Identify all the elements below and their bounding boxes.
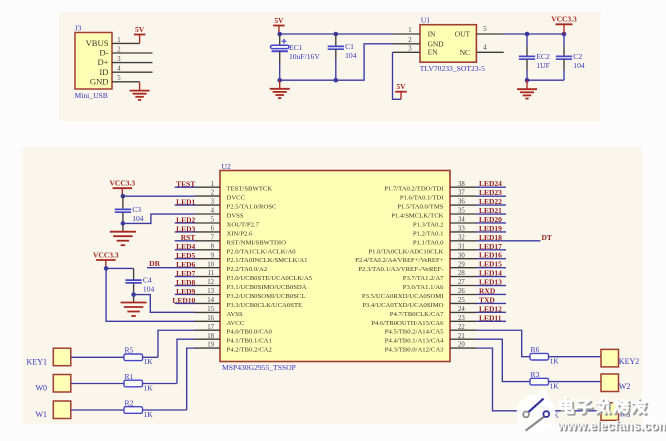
pin 23 (P4.6/TB0OUTH/A15/CA6) of U2 <box>371 315 476 327</box>
pin 3 (D+) of J3 <box>97 56 152 67</box>
wire VCC3.3 to DVCC <box>123 195 195 197</box>
svg-text:104: 104 <box>345 51 357 60</box>
svg-text:TEST: TEST <box>176 180 195 189</box>
svg-text:1: 1 <box>117 37 120 44</box>
svg-text:P1.4/SMCLK/TCK: P1.4/SMCLK/TCK <box>391 213 443 220</box>
svg-text:VCC3.3: VCC3.3 <box>109 179 135 188</box>
svg-text:5: 5 <box>483 26 487 33</box>
svg-text:P2.3/TA0.1/A3/VREF-/VeREF-: P2.3/TA0.1/A3/VREF-/VeREF- <box>358 266 443 273</box>
ground (C3) <box>110 232 136 246</box>
wire <box>526 70 528 80</box>
wire P4.1 to R1 <box>177 339 195 383</box>
svg-text:2: 2 <box>211 190 215 197</box>
svg-text:37: 37 <box>458 190 465 197</box>
svg-text:P3.5/UCA0RXD/UCA0SOMI: P3.5/UCA0RXD/UCA0SOMI <box>362 293 444 300</box>
power port 5V (input rail) <box>273 16 285 34</box>
watermark url www.elecfans.com <box>556 419 666 434</box>
svg-text:10: 10 <box>207 261 214 268</box>
wire LED24 <box>477 186 507 188</box>
connector J3 (Mini_USB) <box>75 24 113 101</box>
svg-text:P1.5/TA0.0/TMS: P1.5/TA0.0/TMS <box>397 204 444 211</box>
wire LED23 <box>477 195 507 197</box>
svg-text:KEY2: KEY2 <box>619 357 639 366</box>
capacitor EC1 <box>271 39 321 61</box>
wire <box>526 47 528 57</box>
svg-text:C2: C2 <box>573 52 582 61</box>
svg-text:LED23: LED23 <box>479 188 502 197</box>
svg-text:D+: D+ <box>97 57 108 67</box>
svg-text:XOUT/P2.7: XOUT/P2.7 <box>227 222 260 229</box>
wire output ground rail <box>527 79 564 81</box>
port W3 <box>601 403 619 421</box>
svg-text:VBUS: VBUS <box>86 38 109 48</box>
svg-text:1UF: 1UF <box>536 61 550 70</box>
svg-text:LED24: LED24 <box>479 179 502 188</box>
svg-text:OUT: OUT <box>455 29 471 38</box>
wire R4 to W3 <box>549 410 602 412</box>
wire LED7 <box>175 276 196 278</box>
pin 15 (AVSS) of U2 <box>195 306 244 318</box>
junction at C1 top <box>334 32 339 37</box>
svg-text:LED18: LED18 <box>479 233 502 242</box>
power port 5V (USB) <box>134 25 146 44</box>
pin 30 (P2.4/TA0.2/A4/VREF+/VeREF+) of U2 <box>355 252 476 264</box>
wire LED12 <box>477 311 507 313</box>
svg-text:P1.3/TA0.2: P1.3/TA0.2 <box>413 222 444 229</box>
svg-text:21: 21 <box>458 333 465 340</box>
svg-text:22: 22 <box>458 324 465 331</box>
svg-text:P4.4/TB0.1/A13/CA4: P4.4/TB0.1/A13/CA4 <box>385 338 444 345</box>
svg-text:33: 33 <box>458 226 465 233</box>
junction at C4 bottom <box>131 292 136 297</box>
svg-text:R1: R1 <box>125 372 134 381</box>
pin 22 (P4.5/TB0.2/A14/CA5) of U2 <box>385 324 477 336</box>
junction at EC1 bottom <box>277 78 282 83</box>
svg-text:1K: 1K <box>550 357 560 366</box>
svg-text:DVCC: DVCC <box>227 195 246 202</box>
pin 2 (D-) of J3 <box>99 46 152 57</box>
ground (C4) <box>121 303 147 317</box>
svg-text:12: 12 <box>207 279 214 286</box>
svg-text:P4.5/TB0.2/A14/CA5: P4.5/TB0.2/A14/CA5 <box>385 329 444 336</box>
svg-text:4: 4 <box>483 44 487 51</box>
pin 6 (XIN/P2.6) of U2 <box>195 226 253 238</box>
svg-text:R3: R3 <box>531 370 540 379</box>
wire <box>122 213 124 232</box>
wire <box>279 62 281 80</box>
wire R3 to W2 <box>549 381 602 383</box>
capacitor C1 <box>328 42 357 60</box>
svg-text:LED16: LED16 <box>479 251 502 260</box>
wire <box>335 34 337 47</box>
capacitor C4 <box>125 276 154 294</box>
wire <box>526 34 528 47</box>
svg-text:P3.2/UCB0SOMI/UCB0SCL: P3.2/UCB0SOMI/UCB0SCL <box>227 293 306 300</box>
pin 5 (OUT) of U1 <box>476 26 503 34</box>
svg-text:XIN/P2.6: XIN/P2.6 <box>227 230 253 237</box>
wire LED5 <box>175 258 196 260</box>
capacitor C3 <box>115 205 144 223</box>
ground (USB) <box>130 91 150 100</box>
port KEY1 <box>53 348 71 366</box>
svg-text:VCC3.3: VCC3.3 <box>551 15 577 24</box>
ground (output) <box>517 89 537 98</box>
pin 24 (P4.7/TB0CLK/CA7) of U2 <box>390 306 477 318</box>
pin 3 (EN) of U1 <box>393 46 421 53</box>
svg-text:P2.0/TA1CLK/ACLK/A0: P2.0/TA1CLK/ACLK/A0 <box>227 248 297 255</box>
svg-text:P3.7/TA1.2/A7: P3.7/TA1.2/A7 <box>403 275 444 282</box>
pin 13 (P3.2/UCB0SOMI/UCB0SCL) of U2 <box>195 288 306 300</box>
power port VCC3.3 (DVCC) <box>109 179 135 197</box>
svg-text:31: 31 <box>458 243 465 250</box>
svg-text:TXD: TXD <box>479 295 495 304</box>
svg-text:26: 26 <box>458 288 465 295</box>
wire to AVCC pin <box>106 268 194 321</box>
wire P4.4 to R3 <box>477 339 531 381</box>
junction at EC2 bottom <box>525 78 530 83</box>
pin 4 (NC) of U1 <box>476 44 503 52</box>
wire VCC3.3 to C4 <box>106 267 134 269</box>
wire DVSS to ground node <box>123 214 195 223</box>
pin 1 (TEST/SBWTCK) of U2 <box>195 181 273 193</box>
svg-text:20: 20 <box>458 342 465 349</box>
svg-text:R6: R6 <box>531 345 540 354</box>
svg-text:1: 1 <box>211 181 214 188</box>
pin 1 (IN) of U1 <box>393 27 421 34</box>
pin 11 (P3.0/UCB0STE/UCA0CLK/A5) of U2 <box>195 270 313 282</box>
svg-text:P4.0/TB0.0/CA0: P4.0/TB0.0/CA0 <box>227 329 273 336</box>
pin 4 (DVSS) of U2 <box>195 208 244 220</box>
port KEY2 <box>601 349 619 367</box>
svg-text:LED7: LED7 <box>176 269 195 278</box>
svg-text:EC1: EC1 <box>289 43 303 52</box>
svg-text:5V: 5V <box>135 25 145 34</box>
wire KEY1 to R5 <box>71 356 124 358</box>
svg-text:P3.6/TA1.1/A6: P3.6/TA1.1/A6 <box>403 284 444 291</box>
svg-text:30: 30 <box>458 252 465 259</box>
svg-text:P3.0/UCB0STE/UCA0CLK/A5: P3.0/UCB0STE/UCA0CLK/A5 <box>227 275 313 282</box>
power port VCC3.3 (output) <box>551 15 577 34</box>
svg-text:14: 14 <box>207 297 214 304</box>
pin 5 (GND) of J3 <box>90 75 140 86</box>
pin 21 (P4.4/TB0.1/A13/CA4) of U2 <box>385 333 477 345</box>
svg-text:3: 3 <box>408 46 412 53</box>
wire W1 to R2 <box>71 409 124 411</box>
pin 28 (P3.7/TA1.2/A7) of U2 <box>403 270 477 282</box>
wire VCC3.3 rail <box>504 33 564 35</box>
schematic sheet (bottom MCU block) <box>23 147 643 424</box>
wire LED14 <box>477 276 507 278</box>
schematic sheet (top power block) <box>59 12 601 122</box>
svg-text:7: 7 <box>211 234 215 241</box>
wire LED10 <box>175 302 196 304</box>
svg-text:2: 2 <box>408 37 412 44</box>
junction at C3 bottom <box>121 221 126 226</box>
svg-text:1K: 1K <box>144 410 154 419</box>
svg-text:MSP430G2955_TSSOP: MSP430G2955_TSSOP <box>222 363 296 372</box>
svg-text:104: 104 <box>573 61 585 70</box>
svg-text:C1: C1 <box>345 42 354 51</box>
svg-text:LED11: LED11 <box>479 313 502 322</box>
pin 33 (P1.2/TA0.1) of U2 <box>413 226 477 238</box>
wire LED20 <box>477 222 507 224</box>
svg-text:EC2: EC2 <box>536 52 550 61</box>
wire <box>563 70 565 80</box>
wire LED13 <box>477 285 507 287</box>
svg-text:LED12: LED12 <box>479 304 502 313</box>
wire R5 out <box>143 356 159 358</box>
svg-text:32: 32 <box>458 234 465 241</box>
svg-text:23: 23 <box>458 315 465 322</box>
wire LED18/DT <box>477 240 541 242</box>
wire <box>279 80 281 89</box>
svg-text:LED5: LED5 <box>176 251 195 260</box>
pin 1 (VBUS) of J3 <box>86 37 140 48</box>
pin 37 (P1.6/TA0.1/TDI) of U2 <box>400 190 477 202</box>
svg-text:P4.6/TB0OUTH/A15/CA6: P4.6/TB0OUTH/A15/CA6 <box>371 320 444 327</box>
wire P4.3 to R4 <box>477 348 531 411</box>
svg-text:8: 8 <box>211 243 215 250</box>
svg-text:1K: 1K <box>550 382 560 391</box>
wire LED3 <box>175 231 196 233</box>
svg-text:18: 18 <box>207 333 214 340</box>
svg-text:TEST/SBWTCK: TEST/SBWTCK <box>227 186 273 193</box>
pin 12 (P3.1/UCB0SIMO/UCB0SDA) of U2 <box>195 279 307 291</box>
svg-text:IN: IN <box>428 29 436 38</box>
pin 8 (P2.0/TA1CLK/ACLK/A0) of U2 <box>195 243 297 255</box>
svg-text:RST/NMI/SBWTDIO: RST/NMI/SBWTDIO <box>227 239 287 246</box>
svg-text:104: 104 <box>143 285 155 294</box>
svg-text:R2: R2 <box>125 398 134 407</box>
svg-text:C3: C3 <box>132 205 141 214</box>
junction at C2 top <box>562 32 567 37</box>
resistor R4 <box>530 399 559 420</box>
wire LED21 <box>477 213 507 215</box>
svg-text:3: 3 <box>117 56 121 63</box>
svg-text:Mini_USB: Mini_USB <box>75 91 108 100</box>
svg-text:P4.7/TB0CLK/CA7: P4.7/TB0CLK/CA7 <box>390 311 444 318</box>
port W1 <box>53 401 71 419</box>
pin 14 (P3.3/UCB0CLK/UCA0STE) of U2 <box>195 297 303 309</box>
svg-text:GND: GND <box>90 76 109 86</box>
svg-text:1: 1 <box>408 27 411 34</box>
svg-text:DT: DT <box>542 233 552 242</box>
svg-text:5: 5 <box>211 217 215 224</box>
wire <box>133 268 135 279</box>
power port 5V (EN) <box>395 82 407 99</box>
svg-text:13: 13 <box>207 288 214 295</box>
svg-text:1K: 1K <box>144 383 154 392</box>
wire TXD <box>477 302 507 304</box>
junction at C3 top <box>121 194 126 199</box>
watermark logo circle <box>517 389 556 434</box>
wire <box>133 284 135 303</box>
junction at EC1 top <box>277 32 282 37</box>
svg-text:104: 104 <box>132 214 144 223</box>
junction at AVCC node <box>104 266 109 271</box>
wire <box>563 34 565 47</box>
svg-text:38: 38 <box>458 181 465 188</box>
pin 20 (P4.3/TB0.0/A12/CA3) of U2 <box>385 342 477 354</box>
svg-text:P2.2/TA0.0/A2: P2.2/TA0.0/A2 <box>227 266 268 273</box>
svg-text:24: 24 <box>458 306 465 313</box>
svg-text:EN: EN <box>428 48 439 57</box>
svg-text:4: 4 <box>117 66 121 73</box>
wire RST <box>175 240 196 242</box>
wire LED22 <box>477 204 507 206</box>
port W0 <box>53 375 71 393</box>
svg-text:AVSS: AVSS <box>227 311 244 318</box>
svg-text:DR: DR <box>149 259 160 268</box>
svg-text:LED6: LED6 <box>176 260 195 269</box>
svg-text:RXD: RXD <box>479 286 496 295</box>
svg-text:P3.3/UCB0CLK/UCA0STE: P3.3/UCB0CLK/UCA0STE <box>227 302 303 309</box>
svg-text:TLV70233_SOT23-5: TLV70233_SOT23-5 <box>420 64 485 73</box>
svg-text:VCC3.3: VCC3.3 <box>93 250 119 259</box>
svg-text:AVCC: AVCC <box>227 320 245 327</box>
resistor R3 <box>530 370 559 391</box>
wire P4.5 to R6 <box>477 330 531 356</box>
svg-text:35: 35 <box>458 208 465 215</box>
svg-text:27: 27 <box>458 279 465 286</box>
pin 3 (P2.5/TA1.0/ROSC) of U2 <box>195 199 278 211</box>
svg-text:11: 11 <box>207 270 214 277</box>
wire 5V rail to U1 IN <box>280 33 393 35</box>
svg-text:5: 5 <box>117 75 121 82</box>
watermark text 电子发烧友 <box>561 399 647 415</box>
svg-text:C4: C4 <box>143 276 152 285</box>
pin 38 (P1.7/TA0.2/TDO/TDI) of U2 <box>384 181 476 193</box>
resistor R6 <box>530 345 559 366</box>
wire P4.0 to R5 <box>158 330 195 357</box>
svg-text:19: 19 <box>207 342 214 349</box>
wire W0 to R1 <box>71 383 124 385</box>
svg-text:LED22: LED22 <box>479 197 502 206</box>
wire <box>139 82 141 91</box>
svg-text:25: 25 <box>458 297 465 304</box>
svg-text:P1.0/TA0CLK/ADC10CLK: P1.0/TA0CLK/ADC10CLK <box>368 248 443 255</box>
svg-text:P2.5/TA1.0/ROSC: P2.5/TA1.0/ROSC <box>227 204 278 211</box>
wire P4.2 to R2 <box>187 348 195 410</box>
wire <box>526 59 528 70</box>
wire LED4 <box>175 249 196 251</box>
svg-text:LED21: LED21 <box>479 206 502 215</box>
wire <box>563 47 565 57</box>
wire AVSS to ground node <box>134 295 195 313</box>
svg-text:P4.3/TB0.0/A12/CA3: P4.3/TB0.0/A12/CA3 <box>385 347 444 354</box>
svg-text:9: 9 <box>211 252 215 259</box>
pin 27 (P3.6/TA1.1/A6) of U2 <box>403 279 477 291</box>
svg-text:LED15: LED15 <box>479 260 502 269</box>
svg-text:LED13: LED13 <box>479 278 502 287</box>
svg-text:LED9: LED9 <box>176 287 195 296</box>
svg-text:17: 17 <box>207 324 214 331</box>
svg-text:DVSS: DVSS <box>227 213 244 220</box>
pin 32 (P1.1/TA0.0) of U2 <box>413 234 477 246</box>
svg-text:P3.1/UCB0SIMO/UCB0SDA: P3.1/UCB0SIMO/UCB0SDA <box>227 284 307 291</box>
pin 25 (P3.4/UCA0TXD/UCA0SIMO) of U2 <box>362 297 476 309</box>
capacitor EC2 <box>519 52 550 70</box>
svg-text:4: 4 <box>211 208 215 215</box>
pin 5 (XOUT/P2.7) of U2 <box>195 217 260 229</box>
svg-text:LED19: LED19 <box>479 224 502 233</box>
svg-text:36: 36 <box>458 199 465 206</box>
capacitor C2 <box>556 52 585 70</box>
wire LED9 <box>175 293 196 295</box>
wire R2 out <box>143 409 187 411</box>
svg-text:10uF/16V: 10uF/16V <box>289 52 320 61</box>
wire LED2 <box>175 222 196 224</box>
port W2 <box>601 374 619 392</box>
svg-text:W2: W2 <box>619 382 631 391</box>
svg-text:LED8: LED8 <box>176 278 195 287</box>
pin 29 (P2.3/TA0.1/A3/VREF-/VeREF-) of U2 <box>358 261 476 273</box>
svg-text:P4.2/TB0.2/CA2: P4.2/TB0.2/CA2 <box>227 347 272 354</box>
svg-text:LED1: LED1 <box>176 197 195 206</box>
svg-text:KEY1: KEY1 <box>27 357 47 366</box>
wire TEST <box>175 186 196 188</box>
pin 9 (P2.1/TA0INCLK/SMCLK/A1) of U2 <box>195 252 308 264</box>
svg-text:LED2: LED2 <box>176 215 195 224</box>
wire LED1 <box>175 204 196 206</box>
svg-text:LED17: LED17 <box>479 242 502 251</box>
wire LED17 <box>477 249 507 251</box>
svg-text:LED14: LED14 <box>479 269 502 278</box>
pin 35 (P1.4/SMCLK/TCK) of U2 <box>391 208 476 220</box>
pin 26 (P3.5/UCA0RXD/UCA0SOMI) of U2 <box>362 288 477 300</box>
svg-text:W1: W1 <box>35 410 47 419</box>
svg-text:5V: 5V <box>396 82 406 91</box>
svg-text:5V: 5V <box>274 16 284 25</box>
svg-text:2: 2 <box>117 46 121 53</box>
junction at EC2 top <box>525 32 530 37</box>
svg-text:29: 29 <box>458 261 465 268</box>
pin 34 (P1.3/TA0.2) of U2 <box>413 217 477 229</box>
svg-text:LED20: LED20 <box>479 215 502 224</box>
svg-text:P2.1/TA0INCLK/SMCLK/A1: P2.1/TA0INCLK/SMCLK/A1 <box>227 257 308 264</box>
svg-text:P4.1/TB0.1/CA1: P4.1/TB0.1/CA1 <box>227 338 272 345</box>
svg-text:U2: U2 <box>222 162 231 171</box>
wire LED19 <box>477 231 507 233</box>
svg-text:D-: D- <box>99 48 108 58</box>
wire R1 out <box>143 383 178 385</box>
wire LED11 <box>477 320 507 322</box>
svg-text:www.elecfans.com: www.elecfans.com <box>556 419 666 433</box>
wire RXD <box>477 293 507 295</box>
junction at C1 bottom <box>334 78 339 83</box>
resistor R2 <box>124 398 153 419</box>
svg-text:34: 34 <box>458 217 465 224</box>
svg-text:15: 15 <box>207 306 214 313</box>
wire LED6/DR <box>147 267 195 269</box>
regulator U1 TLV70233 <box>420 16 485 74</box>
ground (input) <box>270 89 290 98</box>
resistor R1 <box>124 372 153 393</box>
wire <box>335 59 337 80</box>
pin 10 (P2.2/TA0.0/A2) of U2 <box>195 261 268 273</box>
svg-text:P1.6/TA0.1/TDI: P1.6/TA0.1/TDI <box>400 195 444 202</box>
svg-text:P3.4/UCA0TXD/UCA0SIMO: P3.4/UCA0TXD/UCA0SIMO <box>362 302 443 309</box>
wire <box>563 59 565 70</box>
svg-text:RST: RST <box>181 233 196 242</box>
pin 19 (P4.2/TB0.2/CA2) of U2 <box>195 342 272 354</box>
svg-text:1K: 1K <box>144 357 154 366</box>
wire R6 to KEY2 <box>549 356 602 358</box>
pin 4 (ID) of J3 <box>99 66 152 77</box>
svg-text:R5: R5 <box>125 346 134 355</box>
svg-text:J3: J3 <box>75 24 82 33</box>
wire ground rail to U1 GND <box>280 44 393 80</box>
